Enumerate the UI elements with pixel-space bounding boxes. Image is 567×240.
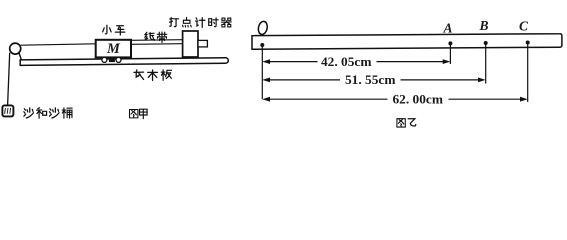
svg-text:42. 05cm: 42. 05cm <box>321 55 372 69</box>
label 打点计时器 (dot timer) <box>169 17 231 27</box>
timer side knob <box>198 40 207 47</box>
cart wheel left <box>102 57 107 62</box>
wire guide line from C <box>527 43 529 103</box>
sand bucket <box>2 105 13 116</box>
wire guide line from O <box>261 45 263 99</box>
tape strip (figure B) <box>252 34 562 50</box>
svg-text:62. 00cm: 62. 00cm <box>393 93 444 107</box>
long wooden board <box>20 58 228 66</box>
paper tape between cart and timer <box>131 40 183 45</box>
cart body M <box>96 40 131 58</box>
wire pulley mount tail <box>19 53 22 60</box>
dot B <box>484 41 488 45</box>
dimension arrow O-C 62.00cm <box>262 97 527 102</box>
label 图乙 (figure B) <box>397 119 416 127</box>
wire string from pulley to cart <box>21 44 96 45</box>
wire hanging string from pulley to bucket <box>8 53 10 106</box>
label 纸带 (paper tape) <box>145 32 167 42</box>
cart axle block <box>109 58 115 62</box>
label 图甲 (figure A) <box>130 109 148 118</box>
dot C <box>526 41 530 45</box>
label 长木板 (long board) <box>134 70 171 80</box>
dot A <box>448 41 452 45</box>
svg-text:C: C <box>519 18 529 33</box>
svg-text:B: B <box>478 18 488 33</box>
timer box <box>183 31 198 57</box>
dot O <box>260 43 264 47</box>
label 沙和沙桶 (sand and sand bucket) <box>24 108 72 118</box>
wire guide line from B <box>485 43 487 84</box>
svg-text:51. 55cm: 51. 55cm <box>345 73 396 87</box>
node O label <box>257 21 268 36</box>
wire guide line from A <box>449 43 451 64</box>
label 小车 (cart) <box>103 25 125 35</box>
dimension arrow O-B 51.55cm <box>262 78 485 83</box>
dimension arrow O-A 42.05cm <box>262 59 450 64</box>
svg-text:A: A <box>442 20 452 35</box>
pulley <box>10 43 21 54</box>
cart wheel right <box>116 57 121 62</box>
svg-text:M: M <box>106 41 121 57</box>
